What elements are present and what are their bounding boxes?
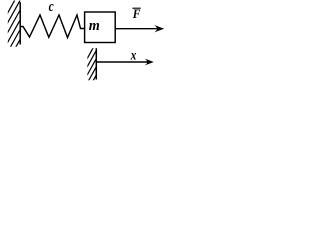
wall hatching <box>0 0 49 48</box>
svg-text:m: m <box>89 18 100 34</box>
force arrow F <box>115 28 157 30</box>
svg-text:c: c <box>49 0 54 14</box>
spring c <box>20 15 84 38</box>
svg-text:x: x <box>130 47 137 62</box>
mass m box <box>85 12 116 43</box>
support wall (x origin) <box>95 48 97 79</box>
wall <box>19 2 21 44</box>
support hatching <box>82 17 110 100</box>
x axis arrow <box>96 61 147 63</box>
